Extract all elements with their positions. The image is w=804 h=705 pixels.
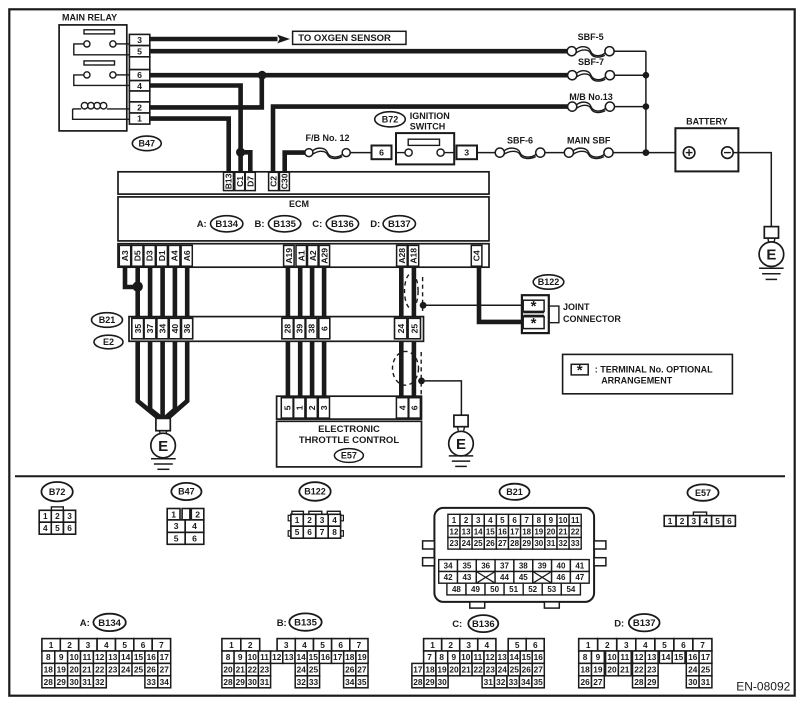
wire relay pin4 to ECM C1 [150, 86, 241, 173]
svg-text:E: E [456, 436, 466, 453]
svg-text:42: 42 [444, 573, 453, 582]
svg-text:3: 3 [476, 516, 481, 525]
throttle control connector row [277, 396, 422, 419]
svg-text:51: 51 [509, 585, 518, 594]
svg-text:12: 12 [272, 652, 282, 662]
svg-text:11: 11 [260, 652, 269, 662]
svg-text:F/B No. 12: F/B No. 12 [305, 133, 349, 143]
connector label B72 [375, 112, 406, 127]
wire SBF-6 to MAIN SBF [545, 152, 564, 154]
svg-text:MAIN SBF: MAIN SBF [567, 135, 611, 145]
svg-text:3: 3 [67, 511, 72, 521]
svg-text:: TERMINAL No. OPTIONAL: : TERMINAL No. OPTIONAL [595, 365, 713, 375]
svg-text:17: 17 [160, 652, 170, 662]
svg-text:26: 26 [580, 677, 590, 687]
svg-text:C2: C2 [269, 176, 279, 187]
svg-text:3: 3 [319, 405, 329, 410]
svg-text:38: 38 [307, 324, 317, 334]
svg-text:5: 5 [295, 527, 300, 537]
svg-text:A4: A4 [169, 250, 179, 261]
svg-text:32: 32 [496, 677, 506, 687]
svg-text:35: 35 [133, 324, 143, 334]
relay pin column pins 3 5 6 4 2 1 [129, 34, 149, 45]
svg-text:15: 15 [486, 528, 495, 537]
connector view B21 [500, 484, 530, 500]
wire relay pin1 to ECM B13 [150, 119, 229, 173]
svg-text:3: 3 [86, 640, 91, 650]
svg-text:5: 5 [515, 640, 520, 650]
svg-text:M/B No.13: M/B No.13 [569, 92, 613, 102]
svg-text:B122: B122 [538, 277, 560, 287]
svg-text:TO OXGEN SENSOR: TO OXGEN SENSOR [298, 33, 391, 44]
svg-text:21: 21 [82, 665, 92, 675]
svg-text:26: 26 [486, 539, 495, 548]
junction M/B bus [643, 103, 650, 110]
svg-text:8: 8 [226, 652, 231, 662]
connector view B47 [171, 483, 201, 500]
junction main line bus [643, 149, 650, 156]
svg-text:10: 10 [559, 516, 568, 525]
svg-text:18: 18 [580, 665, 590, 675]
svg-text:1: 1 [295, 515, 300, 525]
svg-text:25: 25 [134, 665, 144, 675]
svg-text:3: 3 [691, 516, 696, 526]
svg-text:4: 4 [643, 640, 648, 650]
svg-text:E2: E2 [103, 337, 114, 347]
svg-text:A28: A28 [397, 248, 407, 264]
svg-text:50: 50 [490, 585, 499, 594]
wire SBF-5 to bus [614, 50, 646, 52]
connector label B122 [533, 275, 564, 289]
svg-text:33: 33 [309, 677, 319, 687]
wire F/B No.12 to ignition switch [350, 152, 371, 154]
svg-text:13: 13 [647, 652, 657, 662]
svg-text:11: 11 [571, 516, 580, 525]
svg-text:5: 5 [662, 640, 667, 650]
svg-text:23: 23 [108, 665, 118, 675]
svg-text:3: 3 [174, 521, 179, 531]
bus wire right column [645, 51, 647, 152]
svg-text:25: 25 [309, 665, 319, 675]
wire MAIN SBF to battery [613, 152, 675, 154]
svg-text:1: 1 [668, 516, 673, 526]
svg-text:30: 30 [69, 677, 79, 687]
svg-text:21: 21 [461, 665, 471, 675]
svg-text:E: E [766, 247, 776, 264]
svg-text:6: 6 [681, 640, 686, 650]
svg-text:29: 29 [522, 539, 531, 548]
svg-text:7: 7 [524, 516, 529, 525]
svg-text:39: 39 [295, 324, 305, 334]
svg-text:D7: D7 [245, 176, 255, 187]
svg-text:20: 20 [223, 665, 233, 675]
optional terminal dashed ellipse top [405, 273, 419, 308]
svg-text:35: 35 [533, 677, 543, 687]
svg-text:41: 41 [575, 561, 584, 570]
svg-text:D5: D5 [132, 250, 142, 261]
svg-text:A18: A18 [409, 248, 419, 264]
svg-text:SBF-6: SBF-6 [507, 135, 533, 145]
ECM connector row top [118, 172, 489, 194]
svg-text:5: 5 [137, 46, 142, 56]
svg-text:33: 33 [147, 677, 157, 687]
svg-text:13: 13 [284, 652, 294, 662]
svg-text:9: 9 [451, 652, 456, 662]
svg-text:11: 11 [474, 652, 483, 662]
connector label B134 [211, 216, 243, 232]
svg-text:31: 31 [260, 677, 270, 687]
svg-text:4: 4 [484, 640, 489, 650]
svg-text:16: 16 [147, 652, 157, 662]
svg-text:18: 18 [44, 665, 54, 675]
svg-text:JOINT: JOINT [563, 302, 590, 312]
svg-text:14: 14 [474, 528, 483, 537]
ground E middle [454, 415, 468, 427]
svg-text:24: 24 [121, 665, 131, 675]
svg-text:A19: A19 [284, 248, 294, 264]
ignition switch terminal 6 [372, 146, 392, 160]
svg-text:5: 5 [320, 640, 325, 650]
svg-text:31: 31 [546, 539, 555, 548]
svg-text:5: 5 [174, 533, 179, 543]
svg-text:5: 5 [122, 640, 127, 650]
wire A29 to 6 to throttle 3 [322, 267, 327, 398]
svg-text:B47: B47 [178, 487, 195, 497]
svg-text:MAIN RELAY: MAIN RELAY [62, 12, 117, 22]
svg-text:14: 14 [296, 652, 306, 662]
relay coil [73, 108, 82, 110]
svg-text:D:: D: [370, 219, 380, 230]
connector view E57 [687, 484, 718, 500]
svg-text:6: 6 [512, 516, 517, 525]
svg-text:38: 38 [519, 561, 528, 570]
svg-text:2: 2 [248, 640, 253, 650]
svg-text:B137: B137 [633, 618, 656, 629]
ignition switch box [396, 133, 454, 164]
svg-text:12: 12 [450, 528, 459, 537]
divider line [15, 475, 785, 477]
svg-text:35: 35 [357, 677, 367, 687]
svg-text:19: 19 [593, 665, 603, 675]
connector view B72 [41, 482, 72, 501]
svg-text:B21: B21 [99, 315, 116, 325]
wire A28 to 24 to throttle 4 [399, 267, 404, 398]
svg-text:20: 20 [607, 665, 617, 675]
junction optional top [420, 302, 427, 309]
connector label E57 [334, 449, 363, 463]
svg-text:4: 4 [137, 81, 142, 91]
svg-text:15: 15 [522, 652, 532, 662]
svg-text:28: 28 [634, 677, 644, 687]
svg-text:30: 30 [437, 677, 447, 687]
svg-text:D:: D: [614, 619, 624, 630]
svg-text:28: 28 [44, 677, 54, 687]
svg-text:28: 28 [283, 324, 293, 334]
svg-text:34: 34 [160, 677, 170, 687]
wire A6 to 36 to ground funnel [168, 267, 187, 418]
wire optional bottom to ground [422, 381, 462, 415]
svg-text:A:: A: [197, 219, 207, 230]
svg-text:SWITCH: SWITCH [410, 121, 446, 131]
svg-text:B135: B135 [294, 618, 317, 629]
svg-text:19: 19 [437, 665, 447, 675]
svg-text:D3: D3 [145, 250, 155, 261]
battery [675, 128, 738, 171]
svg-text:E57: E57 [695, 488, 711, 498]
wire M/B No.13 to bus [615, 106, 646, 108]
svg-text:7: 7 [700, 640, 705, 650]
electronic throttle control box [277, 421, 422, 467]
svg-text:1: 1 [294, 405, 304, 410]
svg-text:16: 16 [321, 652, 331, 662]
junction SBF-7 bus [643, 72, 650, 79]
svg-text:10: 10 [248, 652, 258, 662]
svg-text:17: 17 [510, 528, 519, 537]
svg-text:13: 13 [108, 652, 118, 662]
svg-text:40: 40 [557, 561, 566, 570]
svg-text:22: 22 [473, 665, 483, 675]
svg-text:*: * [577, 362, 583, 379]
svg-text:10: 10 [461, 652, 471, 662]
fuse M/B No.13 [577, 102, 606, 111]
svg-text:20: 20 [546, 528, 555, 537]
svg-text:14: 14 [509, 652, 519, 662]
svg-text:6: 6 [379, 148, 384, 158]
svg-text:B72: B72 [49, 487, 66, 497]
svg-text:A1: A1 [296, 250, 306, 261]
svg-text:8: 8 [46, 652, 51, 662]
svg-text:23: 23 [260, 665, 270, 675]
svg-text:4: 4 [302, 640, 307, 650]
svg-text:3: 3 [137, 35, 142, 45]
svg-text:ARRANGEMENT: ARRANGEMENT [601, 375, 673, 385]
relay contact 1 fixed bar [84, 30, 115, 34]
svg-text:1: 1 [137, 114, 142, 124]
svg-text:21: 21 [620, 665, 630, 675]
svg-text:8: 8 [583, 652, 588, 662]
svg-text:2: 2 [137, 103, 142, 113]
svg-text:34: 34 [345, 677, 355, 687]
svg-text:4: 4 [192, 521, 197, 531]
fuse SBF-5 [576, 47, 605, 56]
connector label B137 [383, 216, 415, 232]
wire A3 to junction [125, 267, 138, 287]
svg-text:2: 2 [605, 640, 610, 650]
ground terminal box left [156, 418, 170, 430]
svg-text:5: 5 [715, 516, 720, 526]
svg-text:7: 7 [159, 640, 164, 650]
svg-text:13: 13 [497, 652, 507, 662]
svg-text:SBF-7: SBF-7 [578, 57, 604, 67]
svg-text:11: 11 [83, 652, 92, 662]
svg-text:4: 4 [104, 640, 109, 650]
svg-text:A6: A6 [182, 250, 192, 261]
junction A3/D5 [133, 281, 143, 291]
svg-text:19: 19 [357, 652, 367, 662]
svg-text:25: 25 [474, 539, 483, 548]
svg-text:3: 3 [466, 640, 471, 650]
svg-text:B122: B122 [304, 487, 326, 497]
optional terminal dashed ellipse bottom [393, 351, 419, 385]
svg-text:22: 22 [571, 528, 580, 537]
svg-text:27: 27 [593, 677, 603, 687]
svg-text:20: 20 [449, 665, 459, 675]
svg-text:2: 2 [67, 640, 72, 650]
wire ECM C4 to joint connector [479, 267, 523, 322]
svg-text:16: 16 [498, 528, 507, 537]
svg-text:6: 6 [137, 70, 142, 80]
junction C1/D7 [236, 148, 245, 157]
svg-text:B136: B136 [472, 619, 495, 630]
svg-text:7: 7 [357, 640, 362, 650]
svg-text:39: 39 [538, 561, 547, 570]
wire D3 to 37 to ground funnel [150, 267, 161, 418]
wire A19 to 28 to throttle 5 [286, 267, 291, 398]
svg-text:1: 1 [229, 640, 234, 650]
svg-text:37: 37 [500, 561, 509, 570]
connector label B47 [132, 136, 161, 151]
svg-text:16: 16 [534, 652, 544, 662]
svg-text:31: 31 [82, 677, 92, 687]
wire ignition switch to fuse SBF-6 [477, 152, 495, 154]
svg-text:26: 26 [522, 665, 532, 675]
svg-text:ELECTRONIC: ELECTRONIC [318, 424, 380, 435]
wire junction to ECM D7 [241, 152, 251, 172]
svg-text:9: 9 [596, 652, 601, 662]
svg-text:34: 34 [521, 677, 531, 687]
svg-text:1: 1 [171, 509, 176, 519]
svg-text:A:: A: [80, 618, 90, 629]
svg-text:2: 2 [307, 515, 312, 525]
fuse F/B No.12 [313, 148, 342, 157]
svg-text:36: 36 [182, 324, 192, 334]
ground E left [151, 433, 176, 458]
svg-text:10: 10 [69, 652, 79, 662]
svg-text:1: 1 [49, 640, 54, 650]
svg-text:A29: A29 [319, 248, 329, 264]
svg-text:IGNITION: IGNITION [410, 111, 450, 121]
svg-text:6: 6 [727, 516, 732, 526]
svg-text:D1: D1 [157, 250, 167, 261]
svg-text:6: 6 [533, 640, 538, 650]
svg-text:B21: B21 [506, 487, 523, 497]
svg-text:21: 21 [559, 528, 568, 537]
svg-text:2: 2 [464, 516, 469, 525]
wire ECM C30 to fuse F/B No.12 [285, 153, 305, 173]
svg-text:2: 2 [680, 516, 685, 526]
svg-text:4: 4 [397, 405, 407, 410]
svg-text:B47: B47 [139, 139, 156, 149]
svg-text:C4: C4 [472, 250, 482, 261]
svg-text:11: 11 [620, 652, 629, 662]
svg-text:29: 29 [57, 677, 67, 687]
svg-text:1: 1 [43, 511, 48, 521]
svg-text:2: 2 [307, 405, 317, 410]
wire ECM C2 to fuse M/B No.13 [273, 107, 568, 173]
main relay box [59, 25, 127, 131]
svg-text:49: 49 [471, 585, 480, 594]
svg-text:7: 7 [320, 527, 325, 537]
svg-text:2: 2 [195, 509, 200, 519]
ECM pins B13 C1 D7 C2 C30 [224, 172, 234, 190]
svg-text:28: 28 [413, 677, 423, 687]
svg-text:E: E [158, 438, 168, 455]
svg-text:13: 13 [462, 528, 471, 537]
svg-text:28: 28 [223, 677, 233, 687]
connector view B122 [299, 482, 330, 501]
svg-text:35: 35 [462, 561, 471, 570]
ECM connector row bottom [118, 244, 489, 268]
svg-text:19: 19 [57, 665, 67, 675]
wire D5 to 35 to ground funnel [138, 267, 158, 418]
svg-text:14: 14 [661, 652, 671, 662]
wire relay pin2 up to pin6 line [150, 75, 262, 107]
svg-text:24: 24 [396, 324, 406, 334]
svg-text:6: 6 [67, 523, 72, 533]
connector row B21/E2 [129, 317, 424, 342]
svg-text:C1: C1 [235, 176, 245, 187]
svg-text:B136: B136 [331, 219, 354, 230]
joint connector B122 [522, 295, 549, 333]
svg-text:31: 31 [701, 677, 711, 687]
svg-text:23: 23 [486, 665, 496, 675]
svg-text:29: 29 [647, 677, 657, 687]
svg-text:8: 8 [439, 652, 444, 662]
svg-text:47: 47 [575, 573, 584, 582]
svg-text:27: 27 [498, 539, 507, 548]
svg-text:16: 16 [688, 652, 698, 662]
svg-text:15: 15 [309, 652, 319, 662]
svg-text:A3: A3 [120, 250, 130, 261]
svg-text:9: 9 [549, 516, 554, 525]
svg-text:23: 23 [450, 539, 459, 548]
svg-text:5: 5 [500, 516, 505, 525]
svg-text:25: 25 [510, 665, 520, 675]
svg-text:34: 34 [158, 324, 168, 334]
svg-text:22: 22 [634, 665, 644, 675]
connector label E2 [94, 335, 123, 349]
svg-text:6: 6 [338, 640, 343, 650]
wire SBF-7 to bus [615, 74, 646, 76]
svg-text:18: 18 [425, 665, 435, 675]
svg-text:1: 1 [452, 516, 457, 525]
svg-text:5: 5 [282, 405, 292, 410]
svg-text:43: 43 [462, 573, 471, 582]
svg-text:32: 32 [95, 677, 105, 687]
svg-text:3: 3 [320, 515, 325, 525]
svg-text:24: 24 [462, 539, 471, 548]
wire battery negative to ground [733, 153, 771, 227]
svg-text:C:: C: [312, 219, 322, 230]
svg-text:24: 24 [688, 665, 698, 675]
svg-text:12: 12 [95, 652, 105, 662]
svg-text:E57: E57 [341, 451, 357, 461]
svg-text:3: 3 [464, 148, 469, 158]
ECM box [118, 197, 489, 241]
svg-text:12: 12 [634, 652, 644, 662]
svg-text:18: 18 [345, 652, 355, 662]
svg-text:8: 8 [537, 516, 542, 525]
svg-text:33: 33 [509, 677, 519, 687]
wire relay pin6 to fuse SBF-7 [150, 73, 568, 78]
svg-text:46: 46 [557, 573, 566, 582]
svg-text:44: 44 [500, 573, 509, 582]
svg-text:15: 15 [134, 652, 144, 662]
svg-text:10: 10 [607, 652, 617, 662]
svg-text:22: 22 [95, 665, 105, 675]
svg-text:36: 36 [481, 561, 490, 570]
svg-text:6: 6 [192, 533, 197, 543]
